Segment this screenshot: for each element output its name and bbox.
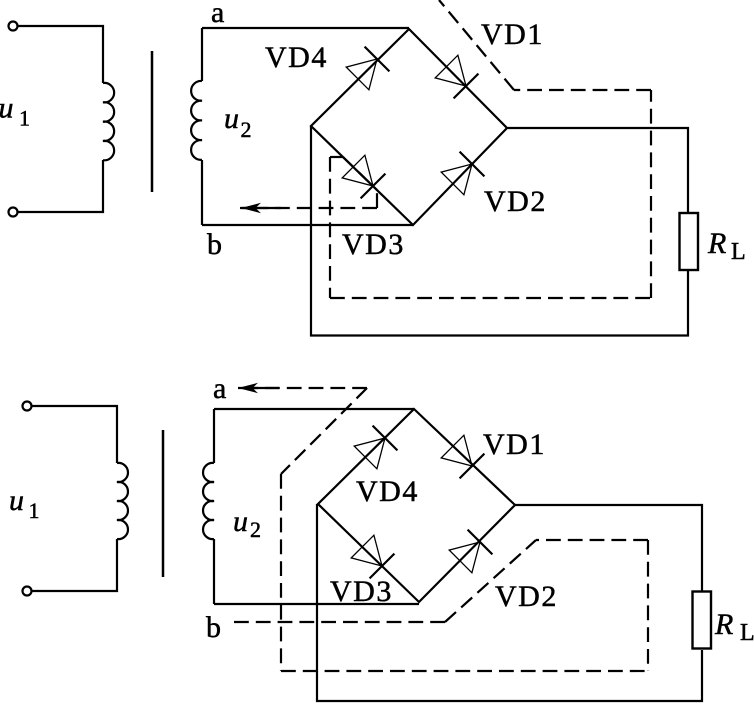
svg-text:VD4: VD4	[356, 475, 419, 508]
svg-text:u: u	[233, 505, 248, 538]
svg-text:1: 1	[19, 106, 30, 131]
svg-text:VD1: VD1	[481, 18, 544, 51]
svg-text:R: R	[707, 227, 726, 260]
svg-text:2: 2	[250, 517, 261, 542]
svg-text:VD3: VD3	[330, 575, 393, 608]
svg-text:u: u	[224, 102, 239, 135]
svg-text:L: L	[740, 620, 754, 646]
svg-text:VD1: VD1	[483, 428, 546, 461]
svg-text:VD2: VD2	[495, 580, 558, 613]
svg-text:b: b	[206, 611, 221, 644]
svg-text:1: 1	[29, 498, 40, 523]
svg-text:2: 2	[241, 117, 252, 142]
svg-text:b: b	[207, 228, 222, 261]
svg-text:a: a	[213, 372, 226, 405]
svg-text:L: L	[731, 239, 746, 265]
svg-text:VD4: VD4	[265, 41, 328, 74]
svg-text:a: a	[211, 0, 224, 29]
svg-text:u: u	[0, 92, 14, 125]
svg-text:u: u	[9, 484, 24, 517]
svg-text:VD2: VD2	[484, 185, 547, 218]
svg-text:R: R	[714, 608, 733, 641]
svg-text:VD3: VD3	[342, 228, 405, 261]
